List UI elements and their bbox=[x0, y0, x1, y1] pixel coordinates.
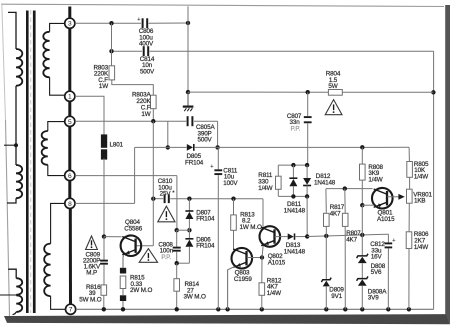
page right shadow band bbox=[445, 5, 450, 324]
wire 147 corner down to R805 bbox=[408, 147, 410, 161]
resistor R811 bbox=[277, 165, 279, 176]
node 6 bbox=[65, 170, 75, 180]
svg-text:1N4148: 1N4148 bbox=[284, 249, 306, 256]
svg-text:3V9: 3V9 bbox=[368, 295, 379, 302]
capacitor C809 bbox=[100, 260, 108, 262]
wire x153 into Q804 base bbox=[137, 245, 154, 247]
junction D809 bottom bbox=[324, 307, 328, 311]
svg-text:9V1: 9V1 bbox=[331, 293, 342, 300]
junction R812 bottom bbox=[260, 307, 264, 311]
wire R803A to node5 rail bbox=[152, 109, 154, 122]
junction ground bbox=[186, 90, 190, 94]
zener D808A bbox=[361, 263, 363, 279]
warning triangle right of Q804 bbox=[139, 249, 157, 263]
wire 147 rail right bbox=[218, 146, 410, 148]
page left border bbox=[2, 4, 6, 120]
svg-text:M.P: M.P bbox=[86, 269, 97, 276]
pin bus vertical line bbox=[68, 7, 71, 19]
svg-text:500V: 500V bbox=[198, 137, 213, 144]
wire Q801 emitter bbox=[362, 204, 374, 206]
resistor R803 bbox=[109, 66, 115, 80]
primary winding W1 top lead bbox=[8, 12, 16, 49]
svg-text:C1959: C1959 bbox=[234, 276, 252, 283]
junction R806 bottom bbox=[407, 307, 411, 311]
winding to node 7 lead bbox=[51, 296, 66, 309]
svg-text:P.P.: P.P. bbox=[161, 254, 171, 261]
svg-text:1/4W: 1/4W bbox=[267, 290, 281, 297]
transistor Q803 bbox=[232, 248, 253, 269]
transformer core bbox=[26, 11, 29, 314]
wire node3 to C806 to x188 bbox=[75, 22, 141, 24]
wire x188 from top border bbox=[187, 6, 189, 23]
junction R804 right bbox=[431, 90, 435, 94]
resistor R815 bbox=[120, 276, 126, 289]
junction zener chain bbox=[360, 233, 364, 237]
wire node5 to snubber bbox=[75, 120, 168, 122]
capacitor C805A bbox=[187, 116, 189, 126]
wire VR801 to R806 bbox=[408, 203, 410, 232]
wire node8 to corner bbox=[75, 202, 135, 204]
wire Q801 collector line bbox=[326, 188, 373, 190]
svg-text:1W M.O: 1W M.O bbox=[240, 224, 262, 231]
svg-text:L801: L801 bbox=[110, 142, 124, 149]
W2 bottom lead bbox=[7, 198, 16, 203]
page top border bbox=[1, 4, 444, 6]
svg-text:1W: 1W bbox=[141, 111, 150, 118]
svg-text:100V: 100V bbox=[223, 180, 238, 187]
diode D805 bbox=[187, 144, 193, 151]
transistor Q802 bbox=[260, 226, 281, 247]
warning triangle above C809 bbox=[86, 236, 98, 250]
svg-text:FR104: FR104 bbox=[196, 243, 215, 250]
junction D813 output bbox=[305, 234, 309, 238]
svg-text:500V: 500V bbox=[140, 68, 155, 75]
svg-text:400V: 400V bbox=[139, 41, 154, 48]
svg-text:3: 3 bbox=[68, 21, 72, 28]
junction C810 left bbox=[151, 197, 155, 201]
svg-text:5V6: 5V6 bbox=[371, 269, 382, 276]
junction D808A bottom bbox=[360, 307, 364, 311]
capacitor C808 bbox=[176, 230, 178, 246]
junction Q803 emitter bottom bbox=[225, 307, 229, 311]
junction D806 top bbox=[187, 228, 191, 232]
wire R804 rail bbox=[188, 91, 328, 93]
svg-text:+: + bbox=[137, 17, 140, 23]
wire snubber top branch bbox=[168, 120, 186, 122]
junction snubber right bbox=[215, 145, 219, 149]
svg-text:3W M.O: 3W M.O bbox=[184, 294, 206, 301]
svg-text:4K7: 4K7 bbox=[346, 236, 357, 243]
resistor R817 bbox=[325, 189, 327, 214]
diode D813 bbox=[288, 233, 294, 239]
wire x188 down to ground junction bbox=[187, 23, 189, 92]
svg-text:5W M.O: 5W M.O bbox=[79, 296, 101, 303]
wire L801 down bbox=[103, 159, 105, 237]
secondary winding pin5-pin6 top lead bbox=[48, 122, 65, 131]
junction D811 bottom bbox=[291, 194, 295, 198]
left winding W3 upper half bbox=[16, 278, 22, 295]
junction R807 bottom bbox=[343, 307, 347, 311]
wire Q802 collector corner bbox=[262, 199, 264, 229]
wire node6 corner down bbox=[176, 176, 178, 231]
svg-text:C5586: C5586 bbox=[124, 226, 142, 233]
svg-text:16V: 16V bbox=[371, 254, 383, 261]
svg-text:1/4W: 1/4W bbox=[258, 185, 272, 192]
node 5 bbox=[65, 116, 75, 126]
diode D811 bbox=[292, 165, 294, 178]
wire Q802 base to D813 bbox=[275, 236, 288, 238]
left winding W3 top lead bbox=[8, 269, 16, 278]
resistor R807 bbox=[344, 189, 346, 214]
wire Q802 emitter to junction bbox=[262, 244, 263, 258]
secondary winding pin3-pin1 top lead bbox=[50, 23, 65, 31]
wire D812 down to D813 line bbox=[306, 196, 308, 236]
wire node3 junction down to R803 bbox=[111, 23, 113, 66]
resistor R816 bbox=[101, 285, 107, 295]
svg-text:5: 5 bbox=[68, 119, 72, 126]
svg-text:1/4W: 1/4W bbox=[414, 244, 428, 251]
snubber left vertical bbox=[167, 121, 169, 147]
wire x153 vertical bbox=[152, 121, 154, 246]
junction D812 bottom bbox=[305, 194, 309, 198]
wire C808-D806 top link bbox=[177, 229, 190, 231]
resistor R814 bbox=[176, 263, 178, 279]
svg-text:4K7: 4K7 bbox=[330, 210, 341, 217]
junction C808 top bbox=[175, 228, 179, 232]
fusible link R815 lower square bbox=[120, 295, 126, 301]
svg-text:P.P.: P.P. bbox=[291, 125, 301, 132]
junction C807 top bbox=[306, 90, 310, 94]
resistor R803A bbox=[151, 95, 157, 109]
svg-text:7: 7 bbox=[69, 307, 73, 314]
junction x188 top bbox=[186, 21, 190, 25]
svg-text:1KB: 1KB bbox=[414, 198, 425, 205]
svg-text:5W: 5W bbox=[328, 83, 337, 90]
svg-text:1/4W: 1/4W bbox=[368, 177, 382, 184]
junction R803A bottom bbox=[151, 119, 155, 123]
junction R813 top bbox=[231, 197, 235, 201]
svg-text:FR104: FR104 bbox=[185, 159, 204, 166]
diode D812 bbox=[306, 165, 308, 178]
wire R803 to R803A bbox=[112, 80, 154, 95]
primary tap junction bbox=[14, 143, 18, 147]
zener chain D808 bbox=[361, 205, 363, 235]
wire Q803 base to R812 node bbox=[247, 257, 262, 259]
resistor R808 bbox=[361, 147, 363, 164]
diode D806 bbox=[188, 230, 190, 239]
wire Q804 collector bbox=[104, 236, 122, 238]
junction D807 top bbox=[187, 197, 191, 201]
resistor R806 bbox=[406, 232, 412, 249]
diode D807 bbox=[188, 199, 190, 211]
resistor R813 bbox=[233, 199, 235, 215]
junction R815 bottom bbox=[121, 307, 125, 311]
svg-text:1/4W: 1/4W bbox=[414, 173, 428, 180]
junction R814 bottom bbox=[175, 307, 179, 311]
wire D811 top rail bbox=[278, 164, 307, 166]
snubber right vertical bbox=[217, 121, 219, 147]
capacitor C814 bbox=[143, 46, 145, 56]
inductor L801 bbox=[101, 134, 107, 147]
capacitor C810 bbox=[164, 194, 166, 203]
svg-text:A1015: A1015 bbox=[377, 216, 395, 223]
junction R816 bottom bbox=[102, 307, 106, 311]
wire right bus x433 bbox=[433, 51, 435, 309]
wire W1 to W2 bbox=[15, 86, 17, 165]
svg-text:+: + bbox=[210, 164, 213, 170]
node 8 bbox=[65, 198, 75, 208]
svg-text:1W: 1W bbox=[99, 83, 108, 90]
node 7 bbox=[66, 304, 76, 314]
resistor R804 bbox=[328, 90, 342, 96]
wire node6 right bbox=[75, 175, 177, 177]
resistor R805 bbox=[407, 162, 413, 178]
potentiometer VR801 bbox=[407, 189, 413, 203]
warning triangle below C810 bbox=[158, 206, 175, 222]
junction C812 bottom bbox=[386, 307, 390, 311]
node 3 bbox=[65, 18, 75, 28]
junction R803 top bbox=[109, 21, 113, 25]
wire to snubber left junction bbox=[135, 146, 168, 148]
capacitor C812 bbox=[387, 234, 389, 242]
secondary winding pin8-pin7 bbox=[44, 244, 50, 297]
svg-text:25V: 25V bbox=[160, 190, 172, 197]
wire base drive line bbox=[153, 198, 163, 200]
secondary winding pin5-pin6 bbox=[42, 131, 48, 165]
svg-text:FR104: FR104 bbox=[196, 216, 215, 223]
wire Q803 emitter down bbox=[228, 267, 235, 310]
page bottom shadow band bbox=[4, 314, 450, 324]
junction R807 top bbox=[343, 186, 347, 190]
svg-text:+: + bbox=[392, 238, 395, 244]
junction D809 top bbox=[324, 234, 328, 238]
wire Q801 base to VR801 wiper bbox=[387, 196, 399, 198]
svg-text:6: 6 bbox=[68, 173, 72, 180]
wire C814 rail bbox=[112, 50, 143, 52]
wire corner up to snubber line bbox=[134, 147, 136, 203]
transistor Q801 bbox=[372, 188, 393, 209]
svg-text:2W M.O: 2W M.O bbox=[130, 287, 152, 294]
wire node1 to L801 bbox=[75, 96, 104, 135]
junction snubber left bbox=[166, 145, 170, 149]
wire snubber bottom branch bbox=[168, 146, 187, 148]
ground symbol bbox=[187, 92, 189, 106]
left winding W3 lower half bbox=[16, 295, 22, 312]
svg-text:1N4148: 1N4148 bbox=[284, 208, 306, 215]
junction D812 top bbox=[305, 163, 309, 167]
bottom rail wire bbox=[76, 308, 434, 310]
winding to node 6 lead bbox=[48, 165, 65, 176]
junction Q803 base / Q802 emitter / R812 bbox=[260, 255, 264, 259]
junction L801/Q804 collector bbox=[102, 234, 106, 238]
primary tap wire bbox=[4, 144, 16, 146]
wire D813 line right bbox=[307, 234, 388, 236]
W3 tap wire bbox=[0, 294, 16, 296]
warning triangle below R804 bbox=[325, 100, 342, 115]
junction R814 top bbox=[175, 261, 179, 265]
svg-text:8: 8 bbox=[68, 201, 72, 208]
junction R803/C814 bbox=[109, 49, 113, 53]
svg-text:1N4148: 1N4148 bbox=[314, 179, 336, 186]
junction D811 top bbox=[291, 163, 295, 167]
wire D811 bottom rail bbox=[278, 195, 307, 197]
resistor R812 bbox=[261, 258, 263, 283]
primary winding W2 bbox=[16, 165, 22, 198]
junction Q801 emitter bbox=[360, 203, 364, 207]
secondary winding pin8-pin7 top lead bbox=[51, 203, 65, 243]
junction R808 top bbox=[360, 145, 364, 149]
winding to node 1 lead bbox=[50, 77, 65, 95]
capacitor C807 bbox=[307, 92, 309, 116]
fusible link R815 upper square bbox=[120, 268, 126, 274]
primary winding W1 bbox=[16, 49, 22, 86]
transistor Q804 bbox=[121, 235, 142, 256]
secondary winding pin3-pin1 bbox=[43, 32, 49, 78]
wire D806 bottom link bbox=[177, 262, 190, 264]
svg-text:1: 1 bbox=[68, 94, 72, 101]
svg-text:A1015: A1015 bbox=[268, 260, 286, 267]
capacitor C806 bbox=[142, 18, 144, 28]
wire L801 junction down to C809 bbox=[103, 237, 105, 260]
wire Q804 emitter down bbox=[122, 255, 125, 267]
junction C811 bottom bbox=[216, 307, 220, 311]
node 1 bbox=[65, 91, 75, 101]
zener D809 bbox=[325, 236, 327, 280]
capacitor C811 bbox=[217, 147, 219, 169]
